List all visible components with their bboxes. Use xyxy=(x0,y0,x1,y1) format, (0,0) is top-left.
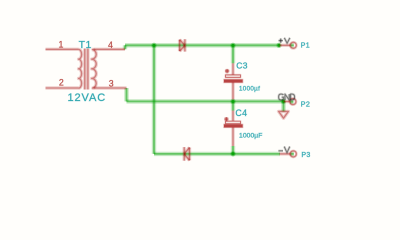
svg-text:T1: T1 xyxy=(79,39,92,51)
svg-text:C4: C4 xyxy=(235,108,247,118)
svg-text:P1: P1 xyxy=(301,43,310,50)
svg-text:4: 4 xyxy=(108,40,113,50)
svg-text:1000µf: 1000µf xyxy=(239,85,260,92)
svg-text:1000µF: 1000µF xyxy=(239,133,262,140)
svg-text:P2: P2 xyxy=(301,100,310,109)
svg-text:P3: P3 xyxy=(301,152,310,159)
svg-text:1: 1 xyxy=(59,40,64,50)
svg-text:3: 3 xyxy=(109,78,114,88)
svg-text:12VAC: 12VAC xyxy=(68,92,107,104)
svg-text:C3: C3 xyxy=(236,61,248,71)
svg-text:2: 2 xyxy=(59,77,64,87)
